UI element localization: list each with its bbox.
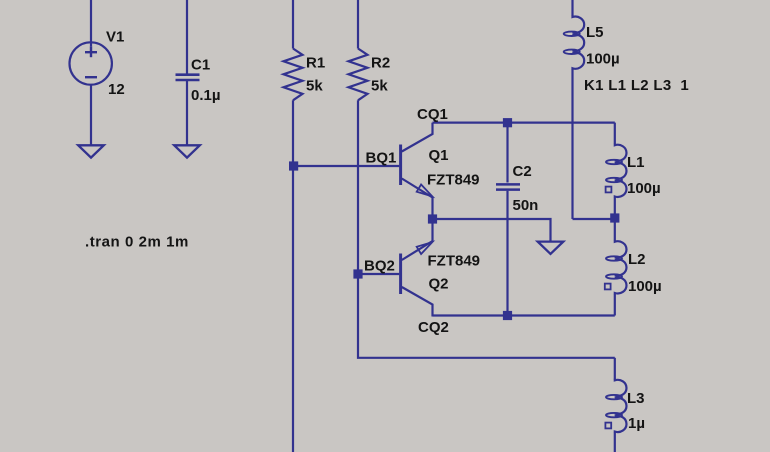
- svg-text:5k: 5k: [306, 78, 323, 95]
- svg-text:Q1: Q1: [429, 147, 449, 164]
- svg-text:K1 L1 L2 L3 1: K1 L1 L2 L3 1: [584, 77, 689, 94]
- svg-text:CQ2: CQ2: [418, 319, 449, 336]
- svg-text:L5: L5: [586, 24, 604, 41]
- svg-text:FZT849: FZT849: [428, 253, 481, 270]
- svg-text:1µ: 1µ: [628, 415, 645, 432]
- svg-text:L3: L3: [627, 390, 645, 407]
- svg-text:C1: C1: [191, 57, 210, 74]
- svg-text:BQ2: BQ2: [364, 257, 395, 274]
- svg-text:100µ: 100µ: [628, 278, 662, 295]
- svg-text:0.1µ: 0.1µ: [191, 87, 221, 104]
- svg-text:C2: C2: [513, 163, 532, 180]
- svg-text:50n: 50n: [513, 197, 539, 214]
- svg-text:V1: V1: [106, 29, 124, 46]
- svg-text:L1: L1: [627, 154, 645, 171]
- svg-text:L2: L2: [628, 251, 646, 268]
- svg-text:R1: R1: [306, 55, 325, 72]
- svg-text:R2: R2: [371, 55, 390, 72]
- svg-text:.tran 0 2m 1m: .tran 0 2m 1m: [85, 233, 189, 250]
- svg-text:FZT849: FZT849: [427, 172, 480, 189]
- svg-text:100µ: 100µ: [627, 180, 661, 197]
- svg-text:100µ: 100µ: [586, 51, 620, 68]
- svg-text:12: 12: [108, 81, 125, 98]
- svg-text:CQ1: CQ1: [417, 106, 448, 123]
- svg-text:Q2: Q2: [429, 276, 449, 293]
- svg-text:BQ1: BQ1: [366, 149, 397, 166]
- svg-text:5k: 5k: [371, 78, 388, 95]
